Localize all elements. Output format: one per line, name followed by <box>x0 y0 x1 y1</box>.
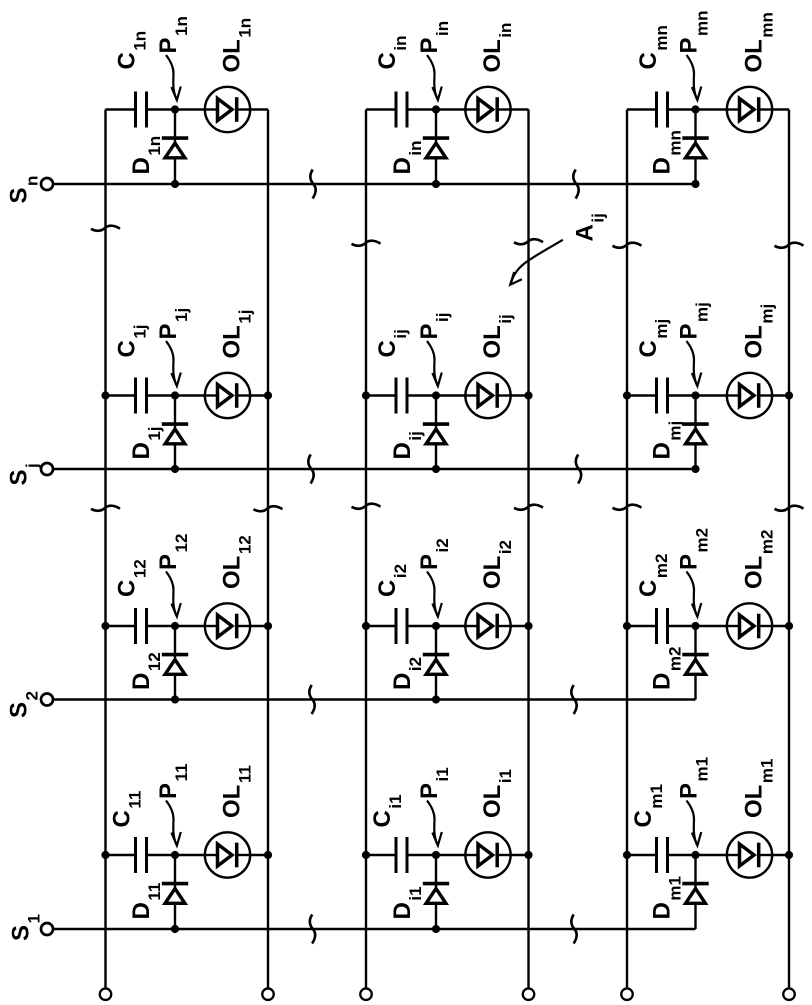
break mark on rail R1 lower gap <box>254 506 283 511</box>
label Pij with leader arrow <box>416 313 452 386</box>
node P1j <box>171 391 179 399</box>
terminal column-i left rail bottom <box>360 988 372 1000</box>
diode D12 <box>162 626 188 700</box>
terminal Sj <box>41 463 53 475</box>
node cell ij right-rail junction <box>524 391 532 399</box>
break mark on Sn at x=313 <box>310 170 315 199</box>
organic LED OL1j <box>205 373 250 418</box>
node Pm1 <box>691 851 699 859</box>
diode Dm2 <box>682 626 708 700</box>
wire column-m right rail <box>788 110 790 989</box>
label P1j with leader arrow <box>155 308 191 386</box>
wire column-1 right rail <box>267 110 269 989</box>
terminal column-m right rail bottom <box>783 988 795 1000</box>
organic LED OLm2 <box>727 603 772 648</box>
break mark on Sj at x=311 <box>308 455 313 484</box>
node cell 1j left-rail junction <box>101 391 109 399</box>
break mark on S2 at x=574 <box>571 685 576 714</box>
organic LED OLij <box>465 373 510 418</box>
label Pm1 with leader arrow <box>676 757 712 846</box>
break mark on rail R3 lower gap <box>775 506 804 511</box>
diode D11 <box>162 855 188 929</box>
organic LED OLmn <box>727 87 772 132</box>
wire scan line Sj <box>54 468 696 470</box>
node Pm2 <box>691 622 699 630</box>
capacitor C11 <box>136 837 147 873</box>
organic LED OLmj <box>727 373 772 418</box>
terminal S1 <box>41 923 53 935</box>
terminal S2 <box>41 694 53 706</box>
node cell 11 left-rail junction <box>101 851 109 859</box>
node Di2-S2 junction <box>432 695 440 703</box>
label Pin with leader arrow <box>416 21 452 100</box>
break mark on S1 at x=574 <box>571 915 576 944</box>
break mark on rail R3 upper gap <box>775 243 804 248</box>
wire scan line S1 <box>54 928 696 930</box>
node cell i2 left-rail junction <box>362 622 370 630</box>
wire cell 1j top wire <box>106 394 136 396</box>
wire cell 1n top wire <box>106 108 136 110</box>
label P12 with leader arrow <box>155 534 191 617</box>
organic LED OLi2 <box>465 603 510 648</box>
diode Di2 <box>423 626 449 700</box>
organic LED OL1n <box>205 87 250 132</box>
label Pmn with leader arrow <box>676 10 712 100</box>
wire column-i left rail <box>365 110 367 989</box>
break mark on S1 at x=312.5 <box>310 915 315 944</box>
node cell 1j right-rail junction <box>264 391 272 399</box>
organic LED OLm1 <box>727 832 772 877</box>
capacitor Cmn <box>657 92 668 128</box>
diode Dij <box>423 396 449 470</box>
node P1n <box>171 105 179 113</box>
node P11 <box>171 851 179 859</box>
wire column-m left rail <box>626 110 628 989</box>
label Pm2 with leader arrow <box>676 528 712 617</box>
node cell i2 right-rail junction <box>524 622 532 630</box>
capacitor Cij <box>396 378 407 414</box>
break mark on rail L2 lower gap <box>352 504 381 509</box>
node cell mj left-rail junction <box>623 391 631 399</box>
leader arrow for Aij <box>510 240 563 285</box>
node cell 11 right-rail junction <box>264 851 272 859</box>
diode Di1 <box>423 855 449 929</box>
diode D1n <box>162 110 188 185</box>
label P11 with leader arrow <box>155 764 191 846</box>
terminal column-i right rail bottom <box>523 988 535 1000</box>
wire cell mj top wire <box>627 394 657 396</box>
break mark on rail L3 lower gap <box>613 505 642 510</box>
node Pmj <box>691 391 699 399</box>
break mark on S2 at x=312 <box>309 685 314 714</box>
capacitor Cmj <box>657 378 668 414</box>
wire column-1 left rail <box>104 110 106 989</box>
node Dij-Sj junction <box>432 465 440 473</box>
node cell ij left-rail junction <box>362 391 370 399</box>
organic LED OL11 <box>205 832 250 877</box>
organic LED OLin <box>465 87 510 132</box>
capacitor C1j <box>136 378 147 414</box>
node Pin <box>432 105 440 113</box>
wire cell 12 top wire <box>106 625 136 627</box>
organic LED OL12 <box>205 603 250 648</box>
label P1n with leader arrow <box>155 16 191 100</box>
node D11-S1 junction <box>171 925 179 933</box>
diode D1j <box>162 396 188 470</box>
wire cell 11 top wire <box>106 854 136 856</box>
break mark on rail L1 lower gap <box>91 506 120 511</box>
wire cell ij top wire <box>366 394 396 396</box>
terminal column-1 right rail bottom <box>262 988 274 1000</box>
node D12-S2 junction <box>171 695 179 703</box>
wire cell m2 top wire <box>627 625 657 627</box>
diode Din <box>423 110 449 185</box>
label Pi1 with leader arrow <box>416 767 452 845</box>
wire scan line Sn <box>54 183 696 185</box>
node cell 12 right-rail junction <box>264 622 272 630</box>
capacitor Ci2 <box>396 608 407 644</box>
wire scan line S2 <box>54 698 696 700</box>
node cell m2 right-rail junction <box>785 622 793 630</box>
break mark on rail L2 upper gap <box>352 241 381 246</box>
node Dmj-Sj junction <box>691 465 699 473</box>
break mark on Sn at x=576 <box>573 170 578 199</box>
break mark on rail L1 upper gap <box>91 226 120 231</box>
wire column-i right rail <box>527 110 529 989</box>
break mark on rail L3 upper gap <box>613 243 642 248</box>
node Pi1 <box>432 851 440 859</box>
wire cell in top wire <box>366 108 396 110</box>
node Pi2 <box>432 622 440 630</box>
node cell i1 left-rail junction <box>362 851 370 859</box>
break mark on Sj at x=578.5 <box>576 455 581 484</box>
break mark on rail R2 lower gap <box>514 505 543 510</box>
node Dmn-Sn junction <box>691 180 699 188</box>
terminal Sn <box>41 178 53 190</box>
node Din-Sn junction <box>432 180 440 188</box>
node cell mj right-rail junction <box>785 391 793 399</box>
label Pmj with leader arrow <box>676 302 712 386</box>
diode Dmn <box>682 110 708 185</box>
break mark on rail R2 upper gap <box>514 239 543 244</box>
node P12 <box>171 622 179 630</box>
node D1n-Sn junction <box>171 180 179 188</box>
capacitor Cin <box>396 92 407 128</box>
wire cell mn top wire <box>627 108 657 110</box>
capacitor Ci1 <box>396 837 407 873</box>
capacitor C12 <box>136 608 147 644</box>
node D1j-Sj junction <box>171 465 179 473</box>
node Di1-S1 junction <box>432 925 440 933</box>
terminal column-1 left rail bottom <box>100 988 112 1000</box>
node cell m1 left-rail junction <box>623 851 631 859</box>
node cell i1 right-rail junction <box>524 851 532 859</box>
wire cell i1 top wire <box>366 854 396 856</box>
node cell m2 left-rail junction <box>623 622 631 630</box>
terminal column-m left rail bottom <box>621 988 633 1000</box>
node cell m1 right-rail junction <box>785 851 793 859</box>
node Pij <box>432 391 440 399</box>
diode Dm1 <box>682 855 708 929</box>
capacitor Cm2 <box>657 608 668 644</box>
label Pi2 with leader arrow <box>416 538 452 616</box>
diode Dmj <box>682 396 708 470</box>
wire cell i2 top wire <box>366 625 396 627</box>
capacitor Cm1 <box>657 837 668 873</box>
capacitor C1n <box>136 92 147 128</box>
wire cell m1 top wire <box>627 854 657 856</box>
node cell 12 left-rail junction <box>101 622 109 630</box>
node Pmn <box>691 105 699 113</box>
organic LED OLi1 <box>465 832 510 877</box>
